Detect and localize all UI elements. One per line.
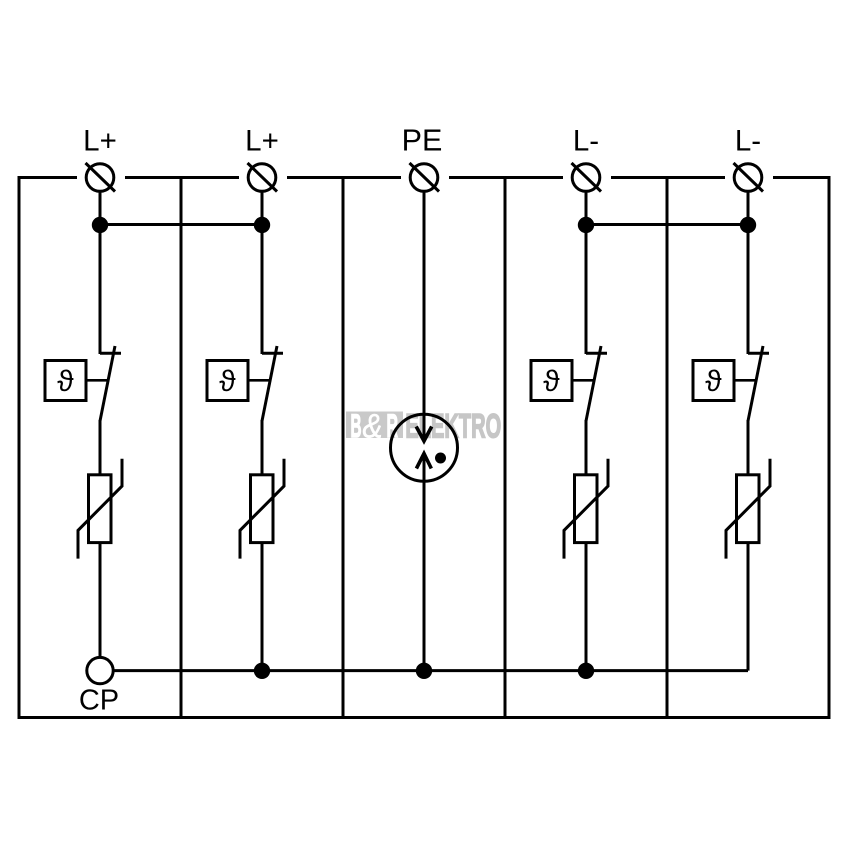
terminal CP bbox=[87, 657, 113, 683]
label CP bbox=[79, 685, 119, 717]
label L+ column 1 bbox=[83, 125, 117, 158]
wire: bottom bus CP bbox=[112, 669, 748, 672]
svg-text:L-: L- bbox=[573, 125, 599, 158]
thermal disconnect switch column 2 bbox=[207, 346, 283, 421]
svg-text:PE: PE bbox=[402, 124, 443, 158]
wire: PE vertical bottom bbox=[423, 454, 426, 671]
thermal disconnect switch column 5 bbox=[693, 346, 769, 421]
wire: column 2 varistor to bus bbox=[261, 543, 264, 671]
wire: column 4 switch to varistor bbox=[585, 420, 588, 476]
svg-text:L-: L- bbox=[735, 125, 761, 158]
varistor column 2 bbox=[240, 459, 284, 559]
enclosure divider 4 bbox=[666, 178, 669, 718]
svg-text:ϑ: ϑ bbox=[705, 365, 722, 398]
junction: bus at column 2 bbox=[254, 663, 270, 679]
svg-text:CP: CP bbox=[79, 685, 119, 717]
wire: column 5 varistor to bus bbox=[747, 543, 750, 671]
varistor column 4 bbox=[564, 459, 608, 559]
label L- column 4 bbox=[573, 125, 599, 158]
svg-text:L+: L+ bbox=[83, 125, 117, 158]
varistor column 5 bbox=[726, 459, 770, 559]
enclosure divider 2 bbox=[342, 178, 345, 718]
wire: L+ link column1-column2 bbox=[100, 223, 262, 226]
wire: L- link column4-column5 bbox=[586, 223, 748, 226]
enclosure divider 1 bbox=[180, 178, 183, 718]
wire: column 5 switch to varistor bbox=[747, 420, 750, 476]
junction: column 4 top bbox=[578, 217, 594, 233]
svg-text:ϑ: ϑ bbox=[57, 365, 74, 398]
wire: column 4 vertical bbox=[585, 191, 588, 354]
terminal L+ column 1 bbox=[77, 163, 125, 192]
terminal PE bbox=[401, 163, 449, 192]
wire: column 1 varistor to CP terminal bbox=[99, 543, 102, 658]
wire: column 4 varistor to bus bbox=[585, 543, 588, 671]
junction: bus at PE column bbox=[416, 663, 432, 679]
enclosure outline bbox=[19, 178, 829, 718]
svg-text:ϑ: ϑ bbox=[219, 365, 236, 398]
wire: column 5 vertical bbox=[747, 191, 750, 354]
thermal disconnect switch column 4 bbox=[531, 346, 607, 421]
svg-text:&: & bbox=[363, 408, 383, 446]
label L+ column 2 bbox=[245, 125, 279, 158]
varistor column 1 bbox=[78, 459, 122, 559]
junction: column 5 top bbox=[740, 217, 756, 233]
svg-text:ELEKTRO: ELEKTRO bbox=[405, 407, 501, 445]
terminal L- column 5 bbox=[725, 163, 773, 192]
wire: column 1 switch to varistor bbox=[99, 420, 102, 476]
junction: column 1 top bbox=[92, 217, 108, 233]
label L- column 5 bbox=[735, 125, 761, 158]
label PE bbox=[402, 124, 443, 158]
svg-text:ϑ: ϑ bbox=[543, 365, 560, 398]
svg-text:B: B bbox=[351, 408, 362, 444]
wire: column 2 vertical bbox=[261, 191, 264, 354]
svg-text:L+: L+ bbox=[245, 125, 279, 158]
terminal L+ column 2 bbox=[239, 163, 287, 192]
wire: PE vertical top bbox=[423, 191, 426, 441]
terminal L- column 4 bbox=[563, 163, 611, 192]
thermal disconnect switch column 1 bbox=[45, 346, 121, 421]
wire: L+ column 1 vertical bbox=[99, 191, 102, 354]
junction: bus at column 4 bbox=[578, 663, 594, 679]
enclosure divider 3 bbox=[504, 178, 507, 718]
wire: column 2 switch to varistor bbox=[261, 420, 264, 476]
gas discharge tube (spark gap) PE bbox=[391, 414, 458, 481]
junction: column 2 top bbox=[254, 217, 270, 233]
